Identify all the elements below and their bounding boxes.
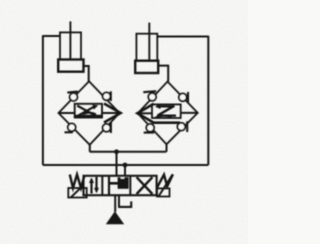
wire line A between lock outlets: [90, 151, 167, 153]
Z1 bottom stem: [89, 145, 91, 152]
valve V1 left solenoid box: [68, 188, 86, 198]
Z1 seat bottom-right: [110, 123, 112, 134]
Z1 seat top-left: [67, 92, 78, 93]
Z1 spool box: [75, 104, 102, 118]
valve V1 left position arrow up: [90, 179, 92, 194]
cylinder C1 rod: [69, 21, 71, 59]
cylinder C2 body: [136, 34, 157, 61]
Z1 midline left: [59, 112, 75, 114]
tank symbol: [118, 201, 131, 207]
wire C1 left port: [43, 35, 60, 37]
Z1 arrow 2 head: [92, 105, 98, 110]
wire stem B to valve: [124, 165, 126, 177]
valve V1 right solenoid diagonal: [159, 174, 173, 196]
Z2 spool arc: [156, 116, 172, 118]
Z2 spool box: [152, 104, 181, 118]
Z1 spool arc: [83, 113, 96, 115]
Z2 top bar arrow head: [155, 104, 161, 109]
wire left rail: [42, 35, 44, 165]
Z1 spool cross arrow 2: [78, 107, 95, 116]
Z2 check ball bottom-left: [146, 124, 154, 132]
valve V1 centre vertical bar: [108, 176, 110, 195]
Z1 seat top-right: [110, 91, 112, 101]
Z1 spool cross arrow 1: [77, 106, 96, 117]
wire C2 right port: [157, 36, 208, 38]
pump pressure source triangle: [106, 211, 124, 224]
Z2 spool bottom bar: [157, 114, 176, 116]
junction dot A: [114, 149, 119, 154]
valve V1 left solenoid diagonal: [71, 188, 81, 197]
valve V1 divider 2: [129, 176, 131, 195]
wire C2 bottom port: [158, 66, 168, 82]
hydraulic lock Z1 diamond outline: [59, 81, 120, 145]
Z2 check ball top-left: [148, 93, 156, 101]
Z1 check ball bottom-right: [103, 124, 111, 132]
wire T to tank: [118, 195, 120, 207]
wire right rail: [207, 36, 209, 165]
cylinder C2 rod: [148, 23, 150, 61]
Z1 midline right: [102, 112, 119, 114]
Z2 check ball top-right: [179, 93, 187, 101]
Z1 spool bottom bar: [76, 115, 102, 118]
Z2 spool diagonal: [158, 106, 174, 116]
valve V1 centre blocked ports blob: [118, 177, 129, 189]
Z2 midline right: [181, 112, 198, 114]
Z2 under bar: [153, 121, 181, 124]
Z2 seat top-right: [187, 92, 189, 103]
Z1 check ball bottom-left: [68, 123, 76, 131]
Z2 seat top-left: [143, 91, 156, 92]
valve V1 right position crossed arrows: [137, 177, 153, 194]
valve V1 left spring: [70, 175, 85, 189]
valve V1 left position arrow down: [95, 177, 97, 192]
Z2 seat bottom-right: [186, 121, 188, 132]
Z2 arrowhead at left vertex: [137, 104, 153, 123]
wire P to pump: [114, 195, 116, 212]
Z1 arrowhead at right vertex: [104, 104, 121, 123]
valve V1 centre blob notch: [121, 177, 125, 178]
Z1 check ball top-right: [103, 92, 111, 100]
cylinder C1 piston block: [58, 60, 83, 72]
cylinder C1 body: [60, 32, 81, 59]
valve V1 right spring: [157, 174, 173, 187]
Z1 seat bottom-left: [65, 131, 73, 133]
hydraulic lock Z2 diamond outline: [138, 82, 198, 145]
paper noise: [0, 0, 248, 244]
valve V1 right solenoid box: [157, 188, 170, 196]
cylinder C2 piston block: [135, 61, 158, 73]
valve V1 divider 1: [101, 176, 103, 195]
wire C1 bottom port: [84, 66, 89, 82]
Z1 check ball top-left: [70, 93, 78, 101]
Z2 spool top bar: [157, 105, 175, 107]
wire stem A to valve: [116, 152, 118, 177]
Z2 seat bottom-left: [144, 132, 155, 134]
junction dot B: [123, 163, 128, 168]
Z2 check ball bottom-right: [177, 123, 185, 131]
Z2 bottom stem: [166, 144, 168, 152]
Z2 midline left: [139, 112, 152, 114]
valve V1 body: [84, 176, 157, 195]
valve V1 centre crossbar: [109, 182, 119, 185]
wire line B between rails: [43, 164, 208, 166]
